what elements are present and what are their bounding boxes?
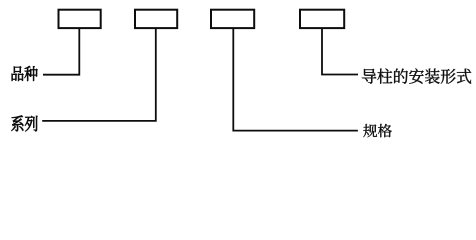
leader line 1: box1 to 品种 <box>43 29 79 75</box>
box 3 (规格 code box) <box>211 10 254 28</box>
leader line 3: box3 to 规格 <box>233 29 358 131</box>
label 系列 <box>11 115 37 131</box>
leader line 4: box4 to 导柱的安装形式 <box>322 29 358 75</box>
label 规格 <box>363 124 392 137</box>
box 2 (系列 code box) <box>135 10 177 28</box>
label 品种 <box>12 66 38 81</box>
box 4 (导柱安装形式 code box) <box>300 10 344 28</box>
leader line 2: box2 to 系列 <box>42 29 156 121</box>
box 1 (品种 code box) <box>59 10 101 28</box>
label 导柱的安装形式 <box>362 68 471 83</box>
